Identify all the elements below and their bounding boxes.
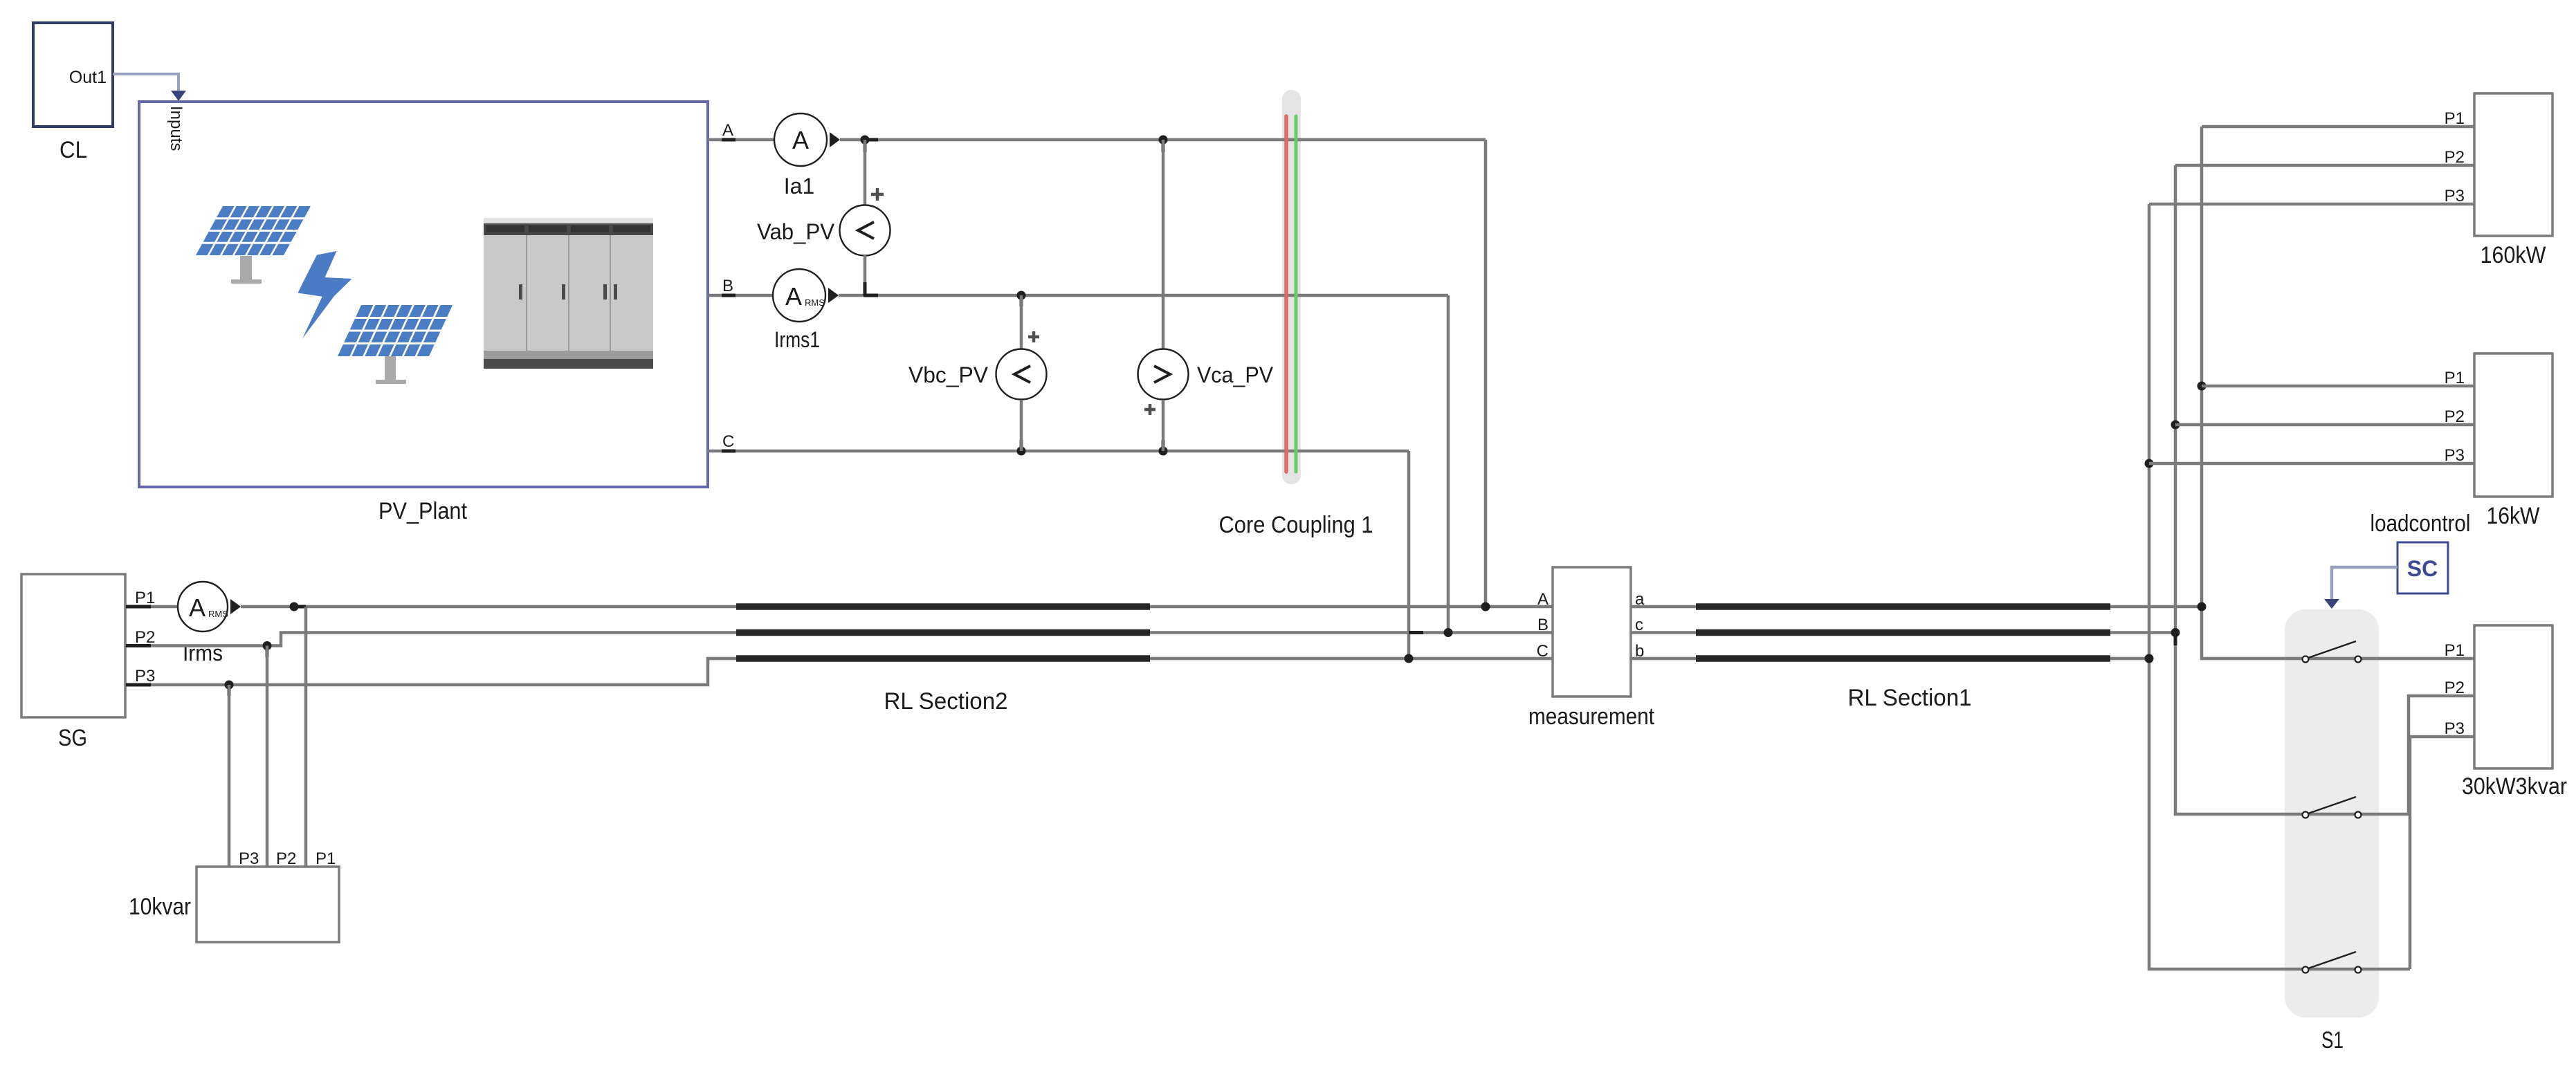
wire bus C: RL Section2 to measurement [1150,657,1553,661]
svg-text:Vca_PV: Vca_PV [1197,362,1274,387]
wire bus B: RL Section1 to load column [2110,631,2175,634]
svg-text:P1: P1 [135,589,155,607]
svg-text:P1: P1 [316,849,336,868]
svg-text:B: B [722,277,733,295]
svg-text:160kW: 160kW [2481,242,2546,268]
wire to 16kW P2 [2175,423,2474,427]
junction bus A to 10kvar P1 [290,602,307,611]
junction on C wire at Vbc_PV [1017,440,1026,456]
svg-text:P2: P2 [2445,148,2465,167]
junction load column B at bus [2171,628,2180,645]
svg-text:A: A [785,282,802,311]
svg-text:RMS: RMS [208,609,228,619]
svg-text:A: A [189,593,205,622]
wire load column phase C (vertical x=3106) [2149,204,2410,969]
svg-text:P2: P2 [276,849,296,868]
svg-text:B: B [1537,616,1549,634]
label Vca_PV [1197,362,1274,387]
wire load column phase A (vertical x=3182) [2202,127,2474,659]
port P2 (SG) [126,628,155,647]
svg-text:Core Coupling 1: Core Coupling 1 [1219,512,1373,538]
label Irms [183,641,223,665]
label 16kW [2487,503,2540,529]
icon inverter cabinet [484,218,653,369]
wire SG P1 to Irms [151,605,178,609]
port B (PV_Plant) [708,277,773,295]
ammeter Irms [178,582,241,632]
svg-text:P1: P1 [2445,641,2465,660]
junction bus B / PV phase B [1444,628,1453,637]
switch S1 pole 3 [2303,952,2362,973]
ammeter Irms1 [773,269,839,322]
junction load column A at bus [2198,602,2207,611]
wire 10kvar P1 drop [304,607,308,867]
label measurement [1528,703,1654,730]
svg-text:S1: S1 [2321,1027,2344,1053]
voltmeter Vca_PV [1138,349,1189,400]
ammeter Ia1 [774,113,840,166]
svg-text:Inputs: Inputs [167,106,185,151]
svg-text:P1: P1 [2445,109,2465,128]
wire phase B: right corner down to bus B [1447,295,1450,633]
svg-text:RL Section2: RL Section2 [884,688,1008,715]
block 160kW [2445,93,2552,236]
core coupling element Core Coupling 1 [1286,116,1296,472]
label Core Coupling 1 [1219,512,1373,538]
wire to 16kW P1 [2202,385,2474,388]
svg-text:16kW: 16kW [2487,503,2540,529]
wire 10kvar P2 drop [266,646,269,867]
port C (PV_Plant) [708,432,751,451]
wire Vbc_PV upper lead [1020,295,1023,349]
block 10kvar [197,849,339,942]
wire bus C: RL Section1 to load column [2110,657,2149,661]
wire bus A: RL Section1 to load column [2110,605,2202,609]
svg-text:P3: P3 [2445,187,2465,205]
wire bus A: Irms to RL Section2 [241,605,736,609]
block SC [2397,542,2448,593]
junction bus C to 10kvar P3 [225,681,234,697]
svg-text:Irms1: Irms1 [774,327,820,352]
wire phase B: Irms1 to right corner [839,294,1448,297]
junction bus C / PV phase C [1405,654,1414,663]
label Vab_PV [757,219,835,244]
svg-text:A: A [722,121,733,140]
svg-text:CL: CL [60,137,87,163]
transmission line RL Section2 [736,607,1150,659]
wire bus A: RL Section2 to measurement [1150,605,1553,609]
wire SG P3 segment [151,659,736,685]
svg-text:SC: SC [2407,556,2438,581]
voltmeter Vbc_PV [996,349,1047,400]
block 16kW [2445,353,2552,497]
pin Inputs (PV_Plant) [167,106,185,151]
wire Vca_PV upper lead [1162,140,1165,349]
svg-text:10kvar: 10kvar [129,894,191,920]
label loadcontrol [2371,510,2471,537]
svg-text:30kW3kvar: 30kW3kvar [2462,773,2567,800]
svg-text:SG: SG [58,725,87,751]
wire SC to S1 [2324,567,2397,609]
junction on A wire at Vca_PV [1159,136,1168,153]
svg-text:RMS: RMS [805,297,825,308]
label S1 [2321,1027,2344,1053]
junction bus A / PV phase A [1481,602,1490,611]
junction on C wire at Vca_PV [1159,440,1168,456]
label 10kvar [129,894,191,920]
wire phase C: right corner down to bus C [1407,451,1411,659]
svg-text:P3: P3 [2445,719,2465,738]
svg-text:P3: P3 [2445,446,2465,465]
wire Vca_PV lower lead [1162,400,1165,451]
wire to 160kW P2 [2175,164,2474,167]
svg-text:measurement: measurement [1528,703,1654,730]
wire 10kvar P3 drop [228,685,231,867]
junction 16kW P1 tap [2198,382,2207,391]
junction 16kW P2 tap [2171,421,2180,430]
svg-text:P3: P3 [239,849,259,868]
transmission line RL Section1 [1696,607,2110,659]
svg-text:P2: P2 [2445,679,2465,697]
svg-text:loadcontrol: loadcontrol [2371,510,2471,537]
switch block S1 [2285,609,2379,1018]
label 30kW3kvar [2462,773,2567,800]
svg-text:P1: P1 [2445,369,2465,387]
wire measurement a to RL Section1 [1631,605,1696,609]
label SG [58,725,87,751]
block PV_Plant [139,102,708,487]
switch S1 pole 2 [2303,797,2362,818]
wire to 160kW P1 [2202,125,2474,129]
port P3 (SG) [126,667,155,685]
wire Vab_PV upper lead [864,140,867,205]
plus sign Vbc_PV [1028,331,1039,342]
label CL [60,137,87,163]
wire bus B: RL Section2 to measurement [1150,631,1553,634]
switch S1 pole 1 [2303,641,2362,663]
junction bus B to 10kvar P2 [263,641,272,657]
wire CL Out1 to PV_Plant Inputs [113,74,186,101]
junction 16kW P3 tap [2145,459,2154,468]
svg-text:P2: P2 [135,628,155,647]
svg-text:Vbc_PV: Vbc_PV [908,362,989,387]
block CL [33,23,113,127]
wire-end tick on bus B [1409,631,1423,634]
wire to 160kW P3 [2149,203,2474,206]
wire phase A: right corner down to bus A [1484,140,1488,607]
svg-text:Vab_PV: Vab_PV [757,219,835,244]
wire to 16kW P3 [2149,462,2474,466]
icon solar panel 2 [338,305,453,384]
block 30kW3kvar [2445,625,2552,768]
wire phase C: PV port C to right corner [751,450,1409,453]
wire Vbc_PV lower lead [1020,400,1023,451]
svg-text:P2: P2 [2445,407,2465,426]
wire load column phase B (vertical x=3144) [2175,165,2409,814]
svg-text:Out1: Out1 [69,68,107,87]
icon solar panel 1 [196,206,311,284]
junction on A wire at Vab_PV [861,136,879,153]
wire phase A: Ia1 to right corner [840,138,1486,142]
wire switch pole 2 to 30kW3kvar P2 [2409,696,2474,814]
label Ia1 [784,174,814,199]
svg-text:Ia1: Ia1 [784,174,814,199]
label Irms1 [774,327,820,352]
plus sign Vca_PV [1144,404,1155,415]
svg-text:C: C [1537,642,1549,661]
svg-text:PV_Plant: PV_Plant [378,498,467,524]
label RL Section1 [1848,685,1972,711]
block SG [21,574,125,717]
core coupling capsule background (Core Coupling 1) [1282,90,1301,484]
port A (PV_Plant) [708,121,775,140]
icon lightning bolt [298,251,352,339]
block measurement [1537,567,1645,697]
label PV_Plant [378,498,467,524]
label RL Section2 [884,688,1008,715]
wire SG P2 segment [151,633,736,646]
wire measurement b to RL Section1 [1631,657,1696,661]
svg-text:A: A [1537,590,1549,609]
svg-text:C: C [722,432,734,451]
wire switch pole 3 to 30kW3kvar P3 [2410,737,2474,969]
plus sign Vab_PV [871,188,884,201]
wire measurement c to RL Section1 [1631,631,1696,634]
wire Vab_PV lower lead [864,255,878,295]
svg-text:P3: P3 [135,667,155,685]
label 160kW [2481,242,2546,268]
svg-text:A: A [792,126,809,154]
label Vbc_PV [908,362,989,387]
port P1 (SG) [126,589,155,607]
junction on B wire at Vbc_PV [1017,291,1026,307]
svg-text:RL Section1: RL Section1 [1848,685,1972,711]
voltmeter Vab_PV [840,205,890,256]
junction load column C at bus [2145,654,2154,663]
